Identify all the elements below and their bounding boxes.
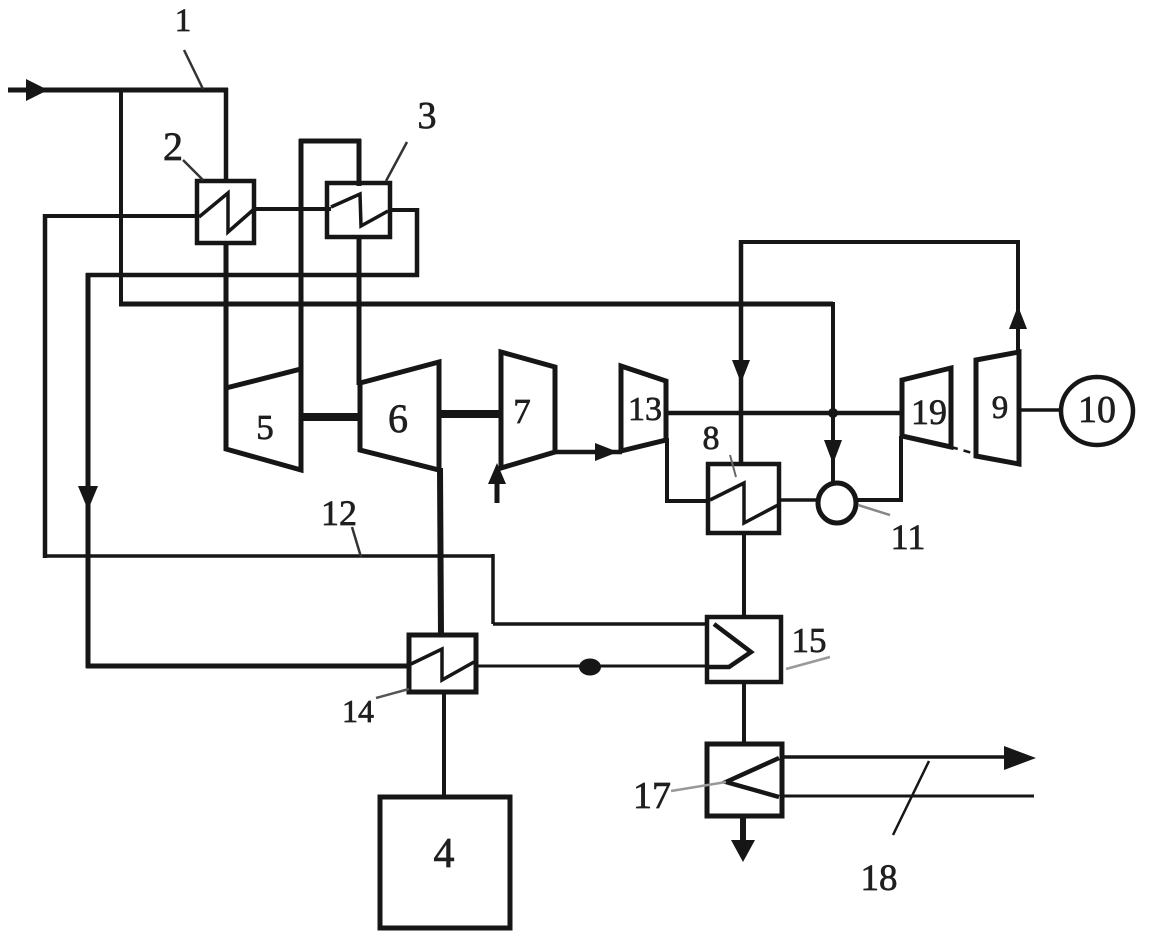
svg-text:5: 5 <box>256 408 274 447</box>
wire x=833 down to mixer 11 <box>831 302 835 485</box>
wire 15 down to 17 <box>742 682 746 746</box>
wire compressor 6 down to HX 14 <box>440 468 441 637</box>
svg-text:3: 3 <box>418 95 437 137</box>
arrow cooling out <box>1004 746 1036 770</box>
turbine 19 <box>902 368 951 447</box>
arrow up on x=1018 <box>1009 306 1027 329</box>
shaft 5-6 <box>299 413 362 421</box>
arrow inlet <box>26 79 48 101</box>
svg-text:10: 10 <box>1078 389 1116 431</box>
wire 12 horizontal y=556 <box>43 554 493 558</box>
condenser 17 <box>707 744 782 816</box>
wire x=88 down with flow arrow <box>86 273 91 668</box>
wire HX 14 down to tank 4 <box>442 692 446 799</box>
arrow on wire x=741 <box>732 360 750 383</box>
shaft 9 to generator <box>1019 408 1062 412</box>
HX 14 symbol <box>411 649 474 680</box>
ejector 15 <box>707 617 781 682</box>
wire HX 2 bottom to compressor 5 <box>224 241 229 390</box>
leader 15 <box>786 657 830 669</box>
svg-text:8: 8 <box>703 420 720 457</box>
svg-text:13: 13 <box>628 391 662 428</box>
heat exchanger 8 <box>708 464 779 533</box>
leader 3 <box>386 142 407 181</box>
leader 8 <box>730 455 736 477</box>
leader 17 <box>671 782 726 791</box>
wire inlet air line 1 <box>8 88 228 93</box>
compressor 7 <box>501 352 555 468</box>
wire turbine 13 outlet down <box>665 438 669 501</box>
mixer 11 <box>818 483 856 523</box>
wire x=741 steam down into HX 8 <box>739 240 744 464</box>
shaft dashes 19-9 <box>951 447 976 454</box>
svg-text:1: 1 <box>175 3 192 39</box>
wire loop top y=141 <box>299 139 361 144</box>
svg-text:2: 2 <box>163 124 183 169</box>
exhaust arrow below 17 <box>740 816 746 846</box>
wire compressor 5 outlet up x=301 <box>299 139 304 371</box>
svg-text:14: 14 <box>342 693 374 729</box>
arrow 7 to 13 <box>595 443 618 461</box>
wire cooling out top y=757 <box>782 755 1013 759</box>
heat exchanger 14 <box>409 635 476 692</box>
svg-text:7: 7 <box>513 392 531 431</box>
arrow on wire x=88 <box>78 486 98 510</box>
wire left vertical x=45 <box>43 214 48 558</box>
wire from line 1 down to heat exchanger 2 <box>224 88 229 183</box>
leader 1 <box>184 50 203 89</box>
turbine 13 <box>621 366 666 451</box>
leader 2 <box>183 160 203 180</box>
wire 12 horizontal y=624 into mixer 15 <box>493 622 709 626</box>
valve dot <box>579 659 601 676</box>
wire to mixer 11 right <box>855 498 903 502</box>
wire into HX 8 left <box>665 499 709 503</box>
leader 12 <box>352 527 361 557</box>
arrowhead fuel <box>488 463 506 484</box>
wire cooling in y=796 <box>782 795 1034 798</box>
shaft 6-7 <box>437 410 503 418</box>
HX 3 symbol <box>331 194 388 226</box>
svg-text:9: 9 <box>992 390 1009 426</box>
svg-text:6: 6 <box>388 396 408 441</box>
condenser 17 nozzle <box>726 758 779 797</box>
wire 7 to turbine 13 <box>555 450 622 455</box>
wire y=275 return line <box>86 273 419 278</box>
heat exchanger 3 <box>327 183 390 237</box>
junction dot shaft x=833 <box>828 408 838 418</box>
svg-text:11: 11 <box>891 517 926 557</box>
wire x=1018 up from turbine 9 <box>1016 240 1020 353</box>
HX 8 symbol <box>710 483 778 523</box>
wire HX 3 right outlet <box>388 208 419 212</box>
wire HX 3 bottom to compressor 6 <box>357 235 362 385</box>
svg-text:19: 19 <box>911 392 947 432</box>
wire into HX 2 left <box>43 214 198 218</box>
wire y=242 top return <box>741 240 1018 244</box>
svg-text:18: 18 <box>861 858 898 899</box>
wire y=304 long air line <box>119 302 833 307</box>
turbine 9 <box>976 352 1019 464</box>
leader 11 <box>858 505 890 515</box>
svg-text:17: 17 <box>633 775 671 817</box>
leader 14 <box>376 689 409 698</box>
wire HX 8 to mixer 11 <box>778 498 820 502</box>
arrowhead exhaust <box>731 840 755 862</box>
wire y=666 to HX 14 <box>86 664 410 669</box>
wire HX 2 to HX 3 <box>254 207 331 211</box>
svg-text:15: 15 <box>792 621 827 660</box>
ejector 15 nozzle <box>709 624 751 667</box>
svg-text:12: 12 <box>321 493 357 533</box>
svg-text:4: 4 <box>434 831 455 877</box>
wire HX 14 to ejector 15 <box>476 665 709 668</box>
fuel arrow into 7 <box>495 482 500 503</box>
tank 4 <box>380 797 510 928</box>
compressor 5 <box>226 369 301 470</box>
arrow on wire x=833 <box>824 440 842 464</box>
generator 10 <box>1061 377 1133 445</box>
wire 12 vertical x=493 <box>491 554 495 624</box>
wire 19 outlet down <box>899 436 903 500</box>
shaft 13-19 <box>666 411 902 416</box>
wire HX 8 bottom to 15 <box>742 531 746 619</box>
HX 2 symbol <box>199 193 253 232</box>
heat exchanger 2 <box>197 181 254 243</box>
leader 18 slash <box>893 761 929 835</box>
compressor 6 <box>360 362 439 470</box>
wire x=417 from HX 3 outlet down <box>415 208 420 277</box>
wire loop down to HX 3 top <box>357 139 362 186</box>
wire branch down at x=121 <box>119 88 123 306</box>
